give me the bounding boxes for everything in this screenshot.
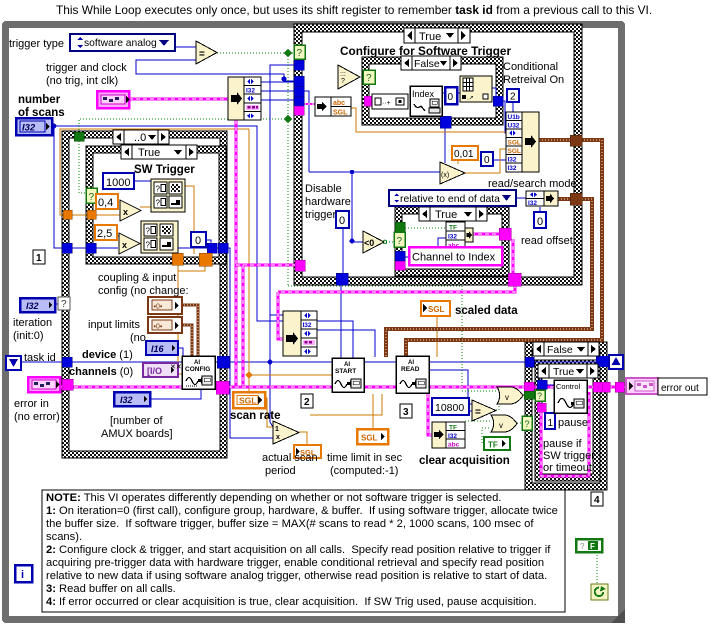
terminal: I16 device [146,341,178,355]
cluster constant: coupling (brown a) [148,297,182,314]
selector label True (SW) [121,145,197,159]
svg-text:TF: TF [449,225,457,232]
svg-text:x: x [123,207,128,217]
wire: green TF const to loop terminal [596,552,598,584]
wire: channel case I32 row [405,238,446,257]
wire: AI READ to equals [428,370,472,404]
svg-text:(no error): (no error) [14,411,60,423]
svg-text:2: 2 [304,397,310,408]
wire: error drop to main line (magenta) [278,292,283,339]
wire: horizontal feed to negate [309,171,440,173]
svg-text:TF: TF [449,425,457,432]
svg-text:=: = [475,407,481,418]
wire: bundle row1 to tunnel [260,81,296,83]
wire: bundle row3 to tunnel [260,99,296,101]
svg-text:?: ? [580,542,585,551]
svg-text:x: x [276,434,280,441]
svg-text:abc: abc [333,100,345,107]
svg-text:?: ? [156,185,161,194]
array to cluster node [460,76,492,102]
wire: grid node to tunnel and bundle [491,88,496,99]
reciprocal function [273,421,299,444]
constant: 1000 [103,173,134,189]
wire: green gate2 to selector [517,422,525,424]
svg-text:(no trig, int clk): (no trig, int clk) [46,75,118,87]
constant: TF (wait terminal) [576,539,602,552]
junction diamond orange [245,371,252,378]
svg-text:READ: READ [401,366,420,373]
svg-text:(computed:-1): (computed:-1) [330,465,398,477]
svg-text:read offset: read offset [521,235,573,247]
svg-text:clear acquisition: clear acquisition [419,455,510,467]
svg-text:SGL: SGL [508,148,521,155]
svg-text:2: 2 [510,92,516,103]
wire: cluster branch to big case tunnel (magenta) [236,264,296,267]
svg-text:channels (0): channels (0) [69,366,133,378]
wire: bundle2 row out a [317,321,353,359]
svg-text:device (1): device (1) [82,349,133,361]
wire: error below big case (magenta) [278,277,515,292]
svg-text:2: Configure clock & trigger,: 2: Configure clock & trigger, and start … [46,544,551,556]
wire: cluster out to right tunnels [177,248,273,438]
wire: brown data cluster A [406,140,602,357]
tunnel: pause right magenta outer [602,382,610,392]
svg-text:True: True [553,366,574,378]
shift register left terminal [6,356,21,370]
svg-text:SGL: SGL [361,434,378,443]
note label box 2 [301,394,313,408]
note label box 4 [591,492,603,506]
tunnel: false case bottom blue [440,116,451,128]
svg-text:?: ? [89,192,95,203]
svg-text:.↗: .↗ [467,96,474,102]
selector label True (pause inner) [538,364,598,378]
svg-text:SGL: SGL [508,140,521,147]
boolean ? tunnel pause inner [535,390,545,401]
tunnel: big case left magenta low [295,260,305,271]
tunnel: green top of ..0 case [74,132,84,141]
wire: green left run [79,119,288,133]
tunnel: channel case green solid [395,222,405,232]
svg-text:0: 0 [537,216,543,228]
svg-text:number: number [18,94,61,106]
constant: I32 AMUX [114,392,150,406]
svg-text:trigger: trigger [305,209,337,221]
note label box 1 [33,250,45,264]
ring control: software analog [70,34,175,51]
svg-text:actual scan: actual scan [262,452,318,464]
junction dot: less-than feed [350,239,355,244]
svg-text:SGL: SGL [333,110,348,117]
wire: control node input [546,384,555,386]
tunnel: ..0 case error in magenta [62,379,73,390]
big right case structure "True" border [294,24,582,285]
wire: tunnel3 hook down [303,91,309,172]
selector label False (configure case) [401,56,461,70]
string constant: Channel to Index [409,247,502,265]
svg-text:False: False [547,344,573,356]
label box: error out [658,378,707,395]
svg-text:1: 1 [36,253,42,264]
wire: number of scans run [54,126,283,321]
constant: 2,5 [95,225,117,240]
constant: 0 (sw trigger) [191,232,206,247]
wire: 0 to mode node [539,207,541,213]
constant: 1 (pause) [545,413,555,429]
wire: brown input limits b [181,325,192,356]
tunnel: big case left magenta [294,106,304,115]
boolean ? tunnel pause selector [522,416,532,430]
svg-text:trigger and clock: trigger and clock [46,62,127,74]
wire: AMUX boards to AI CONFIG [149,390,201,399]
less than zero function [363,231,384,253]
wire: error frame to indicator (magenta) [623,386,627,389]
boolean ? tunnel sw trigger case [86,188,97,203]
junction dot task id crossing [268,360,273,365]
wire: number of scans drop to case [54,126,118,248]
constant: 0 (index) [445,87,457,104]
svg-text:period: period [265,465,296,477]
svg-text:This While Loop executes only: This While Loop executes only once, but … [56,3,652,17]
wire: I16 device to AI CONFIG [178,348,183,356]
case structure "False" (pause outer) border [525,342,607,490]
svg-text:0,01: 0,01 [454,149,474,160]
wire: green bottom run [288,285,462,287]
svg-text:[I/O: [I/O [147,366,162,376]
AI START node [332,358,364,392]
wire: pause case error stub (magenta) [538,391,541,404]
wire: orange scan rate to reciprocal [263,398,273,427]
svg-text:I32: I32 [448,234,457,241]
svg-text:0: 0 [484,155,490,166]
svg-text:1: On iteration=0 (first call): 1: On iteration=0 (first call), configur… [46,505,558,517]
terminal: iteration I32 [20,298,55,312]
tunnel: blue y248 outer [62,243,72,253]
note label box 3 [400,404,412,418]
tunnel: big case left blue 4 [294,96,304,106]
cluster constant c2 (SW trigger lower) [141,221,178,253]
constant: SGL time limit [357,429,388,444]
svg-text:?: ? [537,391,542,401]
svg-text:task id: task id [24,352,56,364]
tunnel: brown big case right a [570,135,582,146]
wire: orange scaled data drop [436,317,438,357]
selector label True (big case) [404,28,470,43]
wire: 0 const to bundle I32 row [493,159,507,161]
svg-text:Retreival On: Retreival On [503,74,564,86]
svg-text:0: 0 [339,215,345,227]
negate function [440,162,465,184]
svg-text:acquiring pre-trigger data wit: acquiring pre-trigger data with hardware… [46,557,544,569]
wire: orange AI READ to time limit [372,394,374,430]
svg-text:4: 4 [594,495,600,506]
junction dot: number of scans [52,124,57,129]
wire: green less-than out [386,241,395,243]
svg-text:relative to end of data: relative to end of data [400,194,500,205]
Control node (pause case) [554,380,587,413]
wire: orange m2 out [139,243,141,245]
case selector ? grey [58,297,70,310]
svg-text:v: v [505,393,509,402]
svg-text:TF: TF [488,441,498,450]
svg-text:=: = [199,49,205,60]
wire: green TF to gate2 [482,428,491,443]
tunnel: channel case magenta low [395,261,405,270]
wire: orange negate out to bundle [465,149,507,173]
svg-text:Index: Index [412,89,435,99]
cluster constant c1 (SW trigger upper) [151,179,185,212]
wire: green drop to or gate [462,286,497,391]
svg-text:START: START [335,368,356,375]
svg-text:pause if: pause if [543,438,582,450]
constant: 0 (read offset a) [481,152,493,166]
tunnel: blue right pair b [218,243,228,253]
wire: channel tunnel down to bottom tunnel (magenta) [512,239,515,273]
svg-text:I32: I32 [508,157,517,164]
svg-text:3: 3 [403,407,409,418]
constant: 0,01 [452,146,478,160]
wire: green equals2 to gate1 [496,404,499,410]
AI READ node [396,356,429,393]
svg-text:i: i [21,569,24,581]
wire: orange scan rate long drop [248,129,250,392]
select function [338,65,360,89]
tunnel: orange bottom a [172,253,183,265]
svg-text:scans).: scans). [46,531,82,543]
wire: orange m1 out [140,206,151,208]
multiply function 2 [119,233,140,254]
svg-text:U32: U32 [508,123,520,130]
boolean ? tunnel big case [294,45,305,59]
svg-text:NOTE: This VI operates differe: NOTE: This VI operates differently depen… [46,492,501,504]
wire: scans drop to reciprocal [270,315,273,427]
svg-text:<0: <0 [364,238,374,248]
tunnel: false case magenta [364,96,374,106]
junction diamond green a [284,49,292,57]
svg-text:scan rate: scan rate [230,410,281,422]
tunnel: big case left blue 1 [294,60,304,70]
svg-text:True: True [435,209,457,221]
wire: 2 const drop [512,102,514,112]
svg-text:of scans: of scans [18,107,65,119]
svg-text:or timeout: or timeout [543,462,592,474]
tunnel: big case bottom blue [336,273,348,285]
svg-text:SGL: SGL [428,305,445,314]
tunnel: pause case task id left [525,357,534,367]
wire: format node input (magenta) [372,100,374,102]
svg-text:I32: I32 [303,322,312,329]
svg-text:3: Read buffer on all calls.: 3: Read buffer on all calls. [46,583,176,595]
bundle node (channel to index case) [446,222,473,250]
svg-text:?: ? [146,227,151,236]
svg-text:0,4: 0,4 [98,197,113,209]
svg-text:U1b: U1b [508,114,520,121]
tunnel: channel case blue [395,251,405,261]
wire: task id long run [21,361,602,363]
wire: orange tunnel2 jog [178,266,205,271]
svg-text:..0: ..0 [134,132,146,144]
cluster constant: trigger and clock [97,91,130,108]
wire: error branch drop (magenta) [242,265,245,387]
svg-text:x: x [122,240,127,250]
indicator: SGL actual scan period [294,445,321,458]
wire: enum loop to equals bottom [136,60,296,81]
svg-text:I16: I16 [151,344,165,354]
tunnel: task id right border [217,356,229,368]
cluster terminal: error in [28,377,60,392]
ring constant: relative to end of data [389,190,516,206]
svg-text:?: ? [366,73,372,84]
svg-text:CONFIG: CONFIG [185,366,210,373]
svg-text:iteration: iteration [13,317,52,329]
wire: cluster trigger-and-clock to bundle1 (magenta) [129,98,228,101]
tunnel: big case left blue 3 [294,86,304,96]
tunnel: ..0 case right error magenta [216,381,229,394]
svg-text:config (no change:: config (no change: [98,285,189,297]
wire: green equals out to tunnel [217,52,296,54]
wire: pause control feed [540,365,542,381]
svg-text:··+: ··+ [382,100,391,107]
svg-text:I32: I32 [508,165,517,172]
svg-text:SGL: SGL [239,396,256,406]
mode conversion node [526,191,558,207]
equals function 2 [472,400,496,421]
tunnel: pause inner blue [537,380,547,389]
wire: orange 0,01 to negate [457,160,459,164]
svg-text:[number of: [number of [110,415,164,427]
wire: orange c1 out [184,186,194,254]
unbundle node (clear acquisition) [432,422,465,449]
svg-text:4: If error occurred or clear: 4: If error occurred or clear acquisitio… [46,596,537,608]
svg-text:Channel to Index: Channel to Index [412,252,496,264]
tunnel: pause right magenta [593,382,602,392]
wire: ring to mode node [516,197,526,199]
selector label ..0 [113,130,169,144]
wire: big case bottom tunnel to AI START [340,285,342,359]
tunnel: false case right blue [493,96,503,106]
tunnel: channel case right magenta [499,228,511,240]
svg-text:✕✕: ✕✕ [170,364,182,371]
wire: unbundle error feed (magenta) [428,387,432,435]
bundle node 1 (trigger and clock) [228,77,261,120]
svg-text:?: ? [397,236,403,247]
constant: 2 (conditional retrieval) [507,89,519,103]
wire: 0 const to tunnel stub [206,240,211,244]
svg-text:0: 0 [448,92,454,103]
svg-text:True: True [138,147,160,159]
boolean ? tunnel false case [363,70,375,84]
svg-text:I32: I32 [528,200,537,207]
wire: bundle row2 to tunnel [260,90,296,92]
svg-text:?: ? [156,199,161,208]
tunnel: big case left blue 2 [294,76,304,86]
junction diamond green b [284,115,292,123]
boolean ? tunnel channel case [394,232,405,247]
equals function [196,41,217,64]
tunnel: big case bottom magenta [508,273,521,286]
case structure "False" (Configure for Software Trigger) border [362,57,503,125]
svg-text:0: 0 [195,235,201,247]
tunnel: pause inner magenta [537,403,546,412]
svg-text:2,5: 2,5 [97,228,112,240]
wire: orange abc-SGL to bundle [351,108,507,141]
svg-text:F: F [590,542,595,551]
wire: orange loop below AI start [310,394,382,415]
wire: channel bundle out to tunnel (magenta) [471,233,500,236]
svg-text:error out: error out [661,383,699,394]
scan from string node (abc/SGL) [315,97,351,117]
svg-text:error in: error in [14,398,49,410]
svg-text:I32: I32 [22,123,36,134]
wire: 1000 to cluster1 [133,180,151,182]
svg-text:I32: I32 [448,433,457,440]
svg-text:I32: I32 [26,301,39,311]
wire: green channel case TF row [405,227,446,229]
svg-text:relative to new data if using: relative to new data if using software a… [46,570,547,582]
frame corner notch [611,609,625,623]
tunnel: pause outer magenta [524,382,534,391]
wire: index node links [442,92,444,94]
bundle node 3 (seven element, configure case) [506,112,539,172]
wire: green inside case to q [79,141,87,193]
tunnel: orange pair inner [87,210,96,219]
svg-text:(init:0): (init:0) [13,330,44,342]
svg-text:SW trigger: SW trigger [543,450,595,462]
case structure "True" (Channel to Index) border [395,207,509,276]
wire: orange reciprocal out [299,432,307,446]
wire: orange c2 down [176,252,178,256]
tunnel: task id outer [62,357,72,367]
wire: green unbundle status to gate2 [465,420,491,422]
svg-text:trigger type: trigger type [9,38,64,50]
while loop iteration terminal i [15,565,32,582]
constant: 10800 [432,398,469,415]
wire: bundle2 row out b [317,330,375,357]
wire: error to frame tunnel (magenta) [601,386,616,389]
svg-text:?: ? [146,241,151,250]
AI CONFIG node [182,356,215,389]
wire: error main run (magenta) [60,386,594,389]
case structure "True" (SW Trigger) border [86,146,226,264]
svg-text:▪0▪: ▪0▪ [154,304,163,311]
svg-text:the buffer size. If software: the buffer size. If software trigger, bu… [46,518,534,530]
tunnel: frame magenta [615,382,624,392]
svg-text:Conditional: Conditional [503,61,558,73]
svg-text:input limits: input limits [88,319,140,331]
junction dot: negate feed [350,170,354,174]
svg-text:(no: (no [130,332,146,344]
svg-text:pause: pause [558,417,588,429]
junction dot: enum split [281,76,286,81]
svg-text:abc: abc [448,442,460,449]
terminal: number of scans I32 [16,118,52,135]
svg-text:Control: Control [556,382,581,391]
svg-text::::: ::: [340,71,346,78]
svg-text:False: False [414,58,440,70]
tunnel: pause case task id right [596,356,605,366]
selector label True (channel case) [419,207,487,221]
svg-text:software analog: software analog [84,38,157,49]
wire: 10800 to equals [469,410,472,412]
tunnel: orange pair outer [63,210,72,219]
constant: 0 (read offset b) [534,212,546,228]
wire: enum to equals top [174,46,196,48]
svg-text:scaled data: scaled data [455,305,518,317]
case structure "..0" border [62,131,227,458]
svg-text:10800: 10800 [435,402,464,414]
wire: error into string-scan node (magenta) [304,103,315,105]
svg-text:1: 1 [275,426,279,433]
